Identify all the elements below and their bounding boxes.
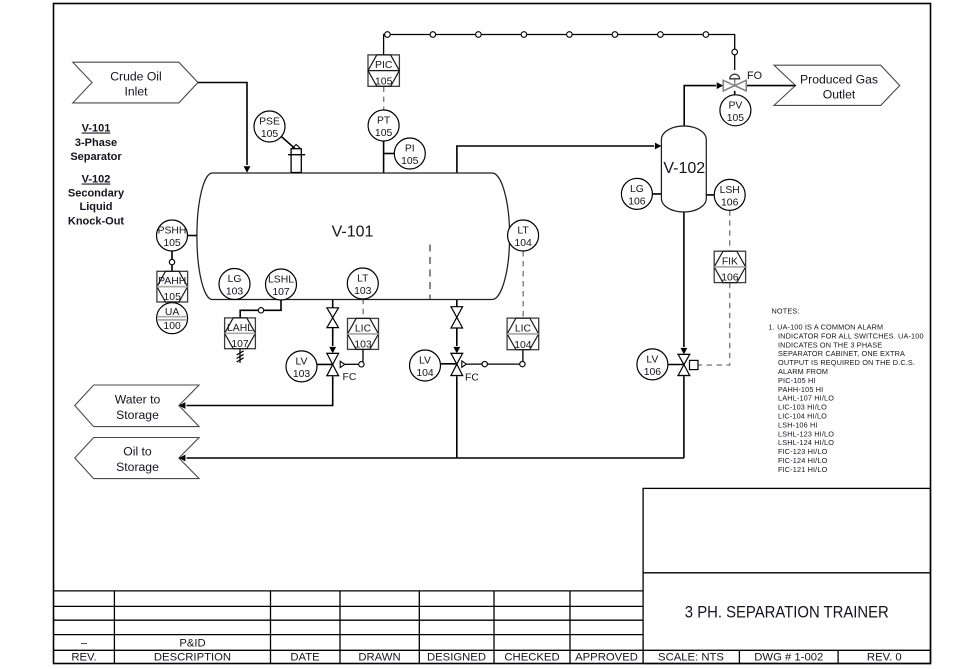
- vessel V-101: [197, 173, 510, 300]
- svg-text:ALARM FROM: ALARM FROM: [778, 367, 828, 376]
- top DCS signal line PIC to PV: [384, 35, 735, 71]
- svg-text:LV: LV: [419, 356, 431, 367]
- LAHL-107 tail with ticks: [237, 349, 244, 363]
- wire LSH-106 stub: [706, 194, 716, 196]
- signal PIC-105 to PT-105: [383, 87, 385, 111]
- instrument UA-100: [157, 303, 188, 334]
- signal link lines to valves (solid with node circles): [345, 350, 523, 365]
- signal LT-103 to LIC-103: [362, 299, 364, 319]
- arrow above LV-106: [681, 348, 688, 355]
- wire LIC-103 to LV-103: [362, 350, 364, 362]
- svg-text:Outlet: Outlet: [823, 87, 856, 101]
- svg-text:REV.: REV.: [71, 652, 96, 664]
- svg-text:V-102: V-102: [82, 174, 111, 186]
- svg-text:UA: UA: [165, 307, 180, 318]
- svg-text:Crude Oil: Crude Oil: [110, 69, 161, 83]
- svg-text:–: –: [81, 638, 88, 650]
- svg-text:PI: PI: [405, 144, 415, 155]
- svg-text:106: 106: [644, 367, 662, 378]
- flag: Crude Oil Inlet: [73, 62, 198, 103]
- svg-text:104: 104: [416, 368, 434, 379]
- svg-text:PIC: PIC: [375, 60, 393, 71]
- wire LG-106 stub: [645, 193, 661, 195]
- svg-text:LG: LG: [630, 184, 644, 195]
- signal LT-104 to LIC-104: [522, 251, 524, 318]
- svg-text:APPROVED: APPROVED: [575, 652, 638, 664]
- svg-text:INDICATES ON THE 3 PHASE: INDICATES ON THE 3 PHASE: [778, 340, 882, 349]
- svg-text:DATE: DATE: [290, 652, 320, 664]
- svg-text:Produced Gas: Produced Gas: [800, 72, 878, 86]
- flag: Oil to Storage: [75, 438, 199, 479]
- instrument LV-104: [410, 350, 441, 381]
- wire PSHH stub: [187, 235, 198, 237]
- instrument LG-103: [219, 269, 250, 300]
- wire water out of vessel through valves: [332, 300, 334, 308]
- svg-text:LV: LV: [646, 354, 658, 365]
- svg-text:Inlet: Inlet: [124, 84, 148, 98]
- arrow above LV-103: [329, 347, 336, 354]
- wire PI branch: [384, 153, 395, 155]
- wire PT tap: [383, 141, 385, 173]
- svg-text:LSH-106 HI: LSH-106 HI: [778, 420, 818, 429]
- svg-text:LAHL-107 HI/LO: LAHL-107 HI/LO: [778, 394, 834, 403]
- nozzle / relief device on V-101 top: [288, 145, 305, 173]
- svg-text:3-Phase: 3-Phase: [75, 137, 117, 149]
- arrowheads: [179, 82, 723, 461]
- svg-text:105: 105: [261, 129, 279, 140]
- svg-text:LV: LV: [296, 356, 308, 367]
- wire gas V-101 to V-102: [457, 146, 654, 173]
- svg-text:LSHL-124 HI/LO: LSHL-124 HI/LO: [778, 438, 834, 447]
- wire oil out of vessel through valves: [456, 300, 458, 307]
- vessel V-102: [661, 126, 706, 212]
- svg-text:LSH: LSH: [720, 185, 740, 196]
- signal LSH-106 to FIK-106: [729, 210, 731, 251]
- svg-text:LSHL-123 HI/LO: LSHL-123 HI/LO: [778, 429, 834, 438]
- svg-text:INDICATOR FOR ALL SWITCHES. UA: INDICATOR FOR ALL SWITCHES. UA-100: [778, 331, 924, 340]
- control valve PV-105 with actuator: [723, 70, 762, 91]
- positioner box LV-106: [690, 360, 699, 369]
- instrument LG-106: [621, 178, 652, 209]
- weir dashed line inside V-101: [429, 245, 431, 300]
- svg-text:PAHH: PAHH: [158, 276, 186, 287]
- svg-text:103: 103: [293, 369, 311, 380]
- svg-text:V-101: V-101: [332, 223, 374, 240]
- positioner arrow and nodes LV-104: [462, 361, 467, 367]
- svg-text:NOTES:: NOTES:: [772, 307, 800, 316]
- svg-text:FIC-123 HI/LO: FIC-123 HI/LO: [778, 447, 828, 456]
- instrument PSE-105: [254, 111, 285, 142]
- svg-text:105: 105: [164, 292, 182, 303]
- wire V-102 bottom to LV-106: [683, 212, 685, 347]
- flag: Water to Storage: [75, 385, 199, 427]
- positioner arrow and node LV-103: [340, 361, 345, 367]
- svg-text:FIK: FIK: [722, 256, 738, 267]
- instrument LT-104: [508, 220, 539, 251]
- svg-text:DRAWN: DRAWN: [358, 652, 400, 664]
- svg-text:103: 103: [226, 287, 244, 298]
- shared display LIC-103: [348, 318, 379, 350]
- instrument LV-103: [286, 351, 317, 382]
- svg-text:105: 105: [375, 128, 393, 139]
- node on PV signal drop: [732, 49, 738, 55]
- svg-text:LG: LG: [228, 274, 242, 285]
- svg-text:107: 107: [272, 287, 290, 298]
- shared display FIK-106: [714, 251, 745, 284]
- svg-text:1. UA-100 IS A COMMON ALARM: 1. UA-100 IS A COMMON ALARM: [769, 323, 884, 332]
- svg-text:V-102: V-102: [663, 160, 705, 177]
- manual valve on oil line: [451, 307, 463, 328]
- svg-text:100: 100: [163, 321, 181, 332]
- svg-text:LIC: LIC: [355, 323, 372, 334]
- svg-text:LIC-103 HI/LO: LIC-103 HI/LO: [778, 403, 827, 412]
- svg-text:PSE: PSE: [259, 117, 280, 128]
- svg-text:105: 105: [163, 238, 181, 249]
- wire PSE diagonal: [281, 136, 296, 149]
- svg-text:OUTPUT IS REQUIRED ON THE D.C.: OUTPUT IS REQUIRED ON THE D.C.S.: [778, 358, 915, 367]
- svg-text:DESIGNED: DESIGNED: [427, 652, 486, 664]
- notes: [769, 307, 924, 474]
- svg-text:FC: FC: [343, 372, 357, 383]
- wire crude inlet: [198, 83, 247, 166]
- label block V-101 / V-102 descriptions: [68, 123, 125, 228]
- svg-text:FIC-124 HI/LO: FIC-124 HI/LO: [778, 456, 828, 465]
- svg-text:LSHL: LSHL: [268, 275, 294, 286]
- svg-text:Storage: Storage: [116, 460, 159, 474]
- control valve LV-103: [326, 353, 364, 382]
- instrument LV-106: [637, 349, 668, 380]
- svg-text:P&ID: P&ID: [179, 638, 205, 650]
- wire LV-106 circle to valve: [655, 364, 684, 366]
- svg-text:106: 106: [628, 197, 646, 208]
- svg-text:DWG # 1-002: DWG # 1-002: [754, 652, 823, 664]
- instrument PI-105: [394, 138, 425, 169]
- instrument PV-105: [720, 95, 751, 126]
- flow lines: [172, 83, 796, 459]
- svg-text:LT: LT: [357, 274, 369, 285]
- svg-text:SCALE: NTS: SCALE: NTS: [658, 652, 724, 664]
- shared display PAHH-105: [157, 271, 188, 303]
- signal line node circles: [385, 32, 738, 55]
- svg-text:Oil to: Oil to: [123, 444, 152, 458]
- wire oil header to flag: [187, 457, 684, 459]
- wire LIC-104 to LV-104: [522, 350, 524, 362]
- title block table: [54, 488, 931, 663]
- svg-text:103: 103: [354, 286, 372, 297]
- wire PV to PV circle: [734, 91, 736, 95]
- svg-text:PIC-105 HI: PIC-105 HI: [778, 376, 816, 385]
- svg-text:103: 103: [354, 340, 372, 351]
- svg-text:PSHH: PSHH: [158, 226, 187, 237]
- svg-text:104: 104: [514, 340, 532, 351]
- svg-text:FIC-121 HI/LO: FIC-121 HI/LO: [778, 465, 828, 474]
- svg-text:REV. 0: REV. 0: [867, 652, 902, 664]
- svg-text:105: 105: [375, 76, 393, 87]
- junction node on LSHL-LAHL link: [258, 308, 263, 313]
- arrow into PV-105 valve: [717, 82, 724, 89]
- svg-text:107: 107: [231, 339, 249, 350]
- instrument PSHH-105: [157, 220, 188, 251]
- instrument PT-105: [368, 110, 399, 141]
- control valve LV-106: [677, 354, 698, 375]
- shared display PIC-105: [368, 55, 399, 88]
- svg-text:LIC-104 HI/LO: LIC-104 HI/LO: [778, 412, 827, 421]
- svg-text:3 PH. SEPARATION TRAINER: 3 PH. SEPARATION TRAINER: [685, 603, 889, 622]
- svg-text:Storage: Storage: [116, 408, 159, 422]
- svg-text:PV: PV: [728, 100, 742, 111]
- flag: Produced Gas Outlet: [774, 65, 900, 105]
- wire LSHL-107 to LAHL-107: [264, 300, 281, 311]
- svg-text:V-101: V-101: [82, 123, 111, 135]
- svg-text:Water to: Water to: [115, 392, 161, 406]
- shared display LAHL-107: [225, 318, 256, 350]
- svg-text:105: 105: [727, 113, 745, 124]
- svg-text:106: 106: [721, 198, 739, 209]
- instrument LT-103: [347, 268, 378, 299]
- manual valve on water line: [327, 308, 339, 328]
- arrow water into flag: [179, 402, 186, 409]
- arrow crude inlet into V-101: [244, 166, 251, 173]
- control valve LV-104: [450, 353, 525, 383]
- wire LV-103 circle to valve: [305, 363, 333, 365]
- arrow oil into flag: [179, 455, 186, 462]
- wire V-102 top to PV valve to flag: [684, 86, 716, 127]
- svg-text:Secondary: Secondary: [68, 187, 125, 199]
- title block text: [71, 603, 901, 664]
- svg-text:FO: FO: [747, 70, 762, 82]
- junction node below PSHH: [169, 259, 174, 264]
- svg-text:LIC: LIC: [515, 323, 532, 334]
- svg-text:Liquid: Liquid: [80, 201, 113, 213]
- instrument LSHL-107: [266, 269, 297, 300]
- svg-text:FC: FC: [465, 372, 479, 383]
- svg-text:Separator: Separator: [70, 151, 122, 163]
- svg-text:PT: PT: [377, 116, 391, 127]
- svg-text:LT: LT: [517, 226, 529, 237]
- signal FIK-106 to LV-106 positioner: [698, 283, 730, 365]
- arrow gas into V-102: [655, 143, 662, 150]
- svg-text:DESCRIPTION: DESCRIPTION: [154, 652, 231, 664]
- shared display LIC-104: [507, 318, 539, 351]
- dashed instrument signals: [363, 87, 730, 366]
- arrow above LV-104: [453, 347, 460, 354]
- svg-text:105: 105: [401, 156, 419, 167]
- svg-text:PAHH-105 HI: PAHH-105 HI: [778, 385, 823, 394]
- instrument LSH-106: [714, 179, 745, 210]
- wire LV-104 circle to valve: [428, 363, 457, 365]
- svg-text:LAHL: LAHL: [227, 323, 253, 334]
- svg-text:Knock-Out: Knock-Out: [68, 215, 125, 227]
- svg-text:CHECKED: CHECKED: [504, 652, 559, 664]
- svg-text:106: 106: [721, 273, 739, 284]
- svg-text:104: 104: [514, 238, 532, 249]
- svg-text:SEPARATOR CABINET, ONE EXTRA: SEPARATOR CABINET, ONE EXTRA: [778, 349, 905, 358]
